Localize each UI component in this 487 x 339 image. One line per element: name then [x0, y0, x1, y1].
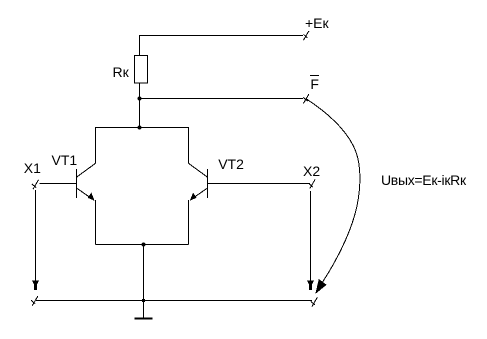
- label X2: [303, 164, 320, 178]
- wire feedback curve F to output: [307, 99, 360, 290]
- wire F rail: [140, 98, 304, 100]
- wire X1 drop line: [35, 190, 37, 284]
- terminal +Ek: [303, 31, 309, 40]
- node junction on F rail: [138, 97, 142, 101]
- wire VT2 base lead: [208, 183, 311, 185]
- label VT2: [218, 157, 244, 171]
- ground: [135, 318, 153, 320]
- terminal X1: [32, 180, 39, 189]
- wire ground stem: [143, 245, 145, 320]
- transistor Q VT1: [77, 163, 96, 200]
- transistor Q VT2: [189, 163, 208, 200]
- terminal X2: [309, 179, 316, 188]
- wire X2 drop line: [310, 191, 312, 284]
- wire top rail +Ek: [140, 36, 304, 57]
- wire collector box top: [96, 128, 189, 164]
- terminal bottom left: [31, 296, 38, 305]
- wire junction to collector box top: [139, 99, 141, 128]
- wire VT1 emitter to inner rail: [95, 200, 97, 244]
- wire resistor bottom to F-rail junction: [139, 83, 141, 99]
- label VT1: [52, 153, 78, 167]
- node junction on bottom rail: [142, 299, 146, 303]
- terminal F: [303, 94, 309, 103]
- wire VT2 emitter to inner rail: [188, 200, 190, 244]
- node junction on box top: [138, 126, 142, 130]
- label X1: [24, 161, 41, 175]
- label +Ek: [305, 16, 329, 30]
- node junction on emitter rail: [142, 243, 146, 247]
- resistor Rk: [135, 56, 148, 84]
- label F with overline: [310, 75, 319, 91]
- wire inner emitter rail: [96, 244, 189, 246]
- label Rk: [113, 65, 129, 79]
- label Uvyh equation: [381, 173, 466, 187]
- wire bottom rail: [36, 300, 312, 302]
- terminal bottom right output: [311, 297, 318, 306]
- wire VT1 base lead: [40, 183, 77, 185]
